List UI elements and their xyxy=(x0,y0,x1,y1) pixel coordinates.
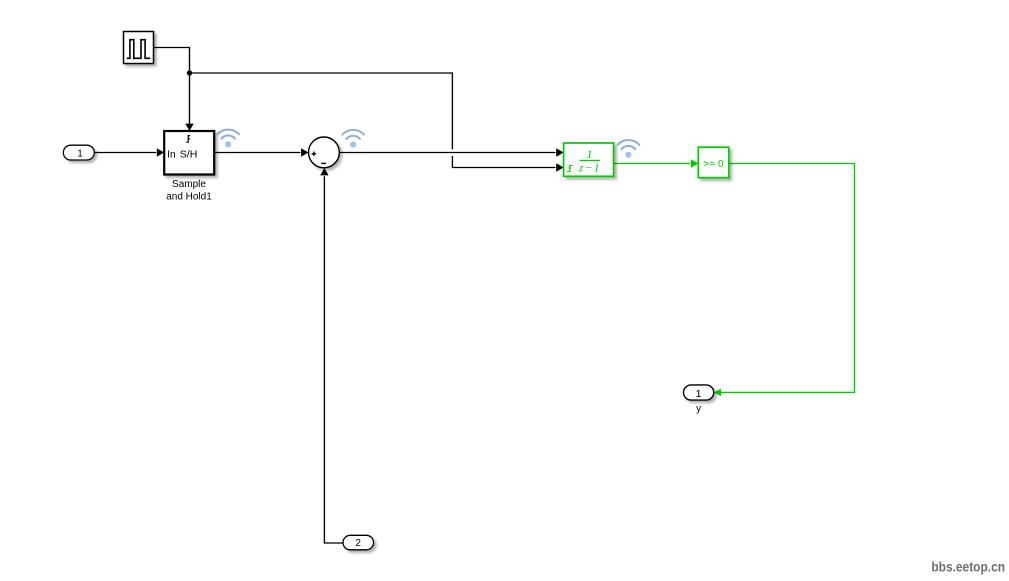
inport 1 xyxy=(63,145,94,160)
wire compare to outport y xyxy=(721,164,855,393)
inport 2 xyxy=(343,535,374,550)
svg-text:and Hold1: and Hold1 xyxy=(166,192,212,203)
svg-text:y: y xyxy=(696,403,701,414)
wifi icon at sum output xyxy=(342,130,364,148)
svg-text:2: 2 xyxy=(355,538,361,549)
wire junction down to Sample and Hold trigger input xyxy=(189,73,191,124)
wifi icon at integrator output xyxy=(618,140,640,158)
sum block xyxy=(309,137,340,168)
wire inport 1 to Sample and Hold xyxy=(94,152,156,154)
compare block >= 0 xyxy=(698,147,729,178)
integrator trigger glyph xyxy=(567,166,573,172)
svg-text:bbs.eetop.cn: bbs.eetop.cn xyxy=(931,559,1005,575)
node junction dot xyxy=(187,70,192,75)
svg-text:S/H: S/H xyxy=(180,148,198,160)
svg-text:1: 1 xyxy=(696,388,702,400)
wifi icon at Sample and Hold output xyxy=(217,130,239,148)
wire sum to integrator xyxy=(339,152,555,154)
wire pulse generator to junction xyxy=(154,48,190,74)
integrator block U 1/(z-1) xyxy=(564,143,614,176)
wire Sample and Hold to sum xyxy=(214,152,300,154)
trigger glyph xyxy=(186,136,190,143)
svg-text:1: 1 xyxy=(77,148,83,159)
wire inport 2 up to sum minus input xyxy=(324,176,343,543)
svg-text:In: In xyxy=(167,148,176,160)
wire integrator to compare xyxy=(614,163,691,165)
wire junction branch right and down to integrator trigger input xyxy=(190,73,453,149)
svg-text:z − 1: z − 1 xyxy=(578,161,600,175)
svg-text:1: 1 xyxy=(587,147,593,161)
pulse generator block xyxy=(124,32,154,64)
Sample and Hold1 block xyxy=(164,131,214,175)
outport 1 (y) xyxy=(684,385,714,400)
svg-text:Sample: Sample xyxy=(172,179,206,190)
svg-text:>= 0: >= 0 xyxy=(703,159,723,170)
